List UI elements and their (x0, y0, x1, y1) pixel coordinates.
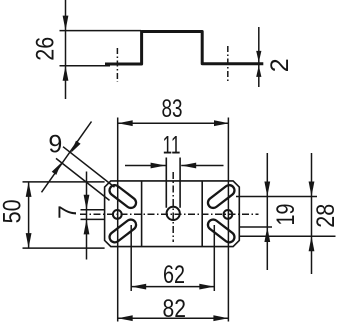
dimension 62 left extension line (130, 225, 132, 291)
svg-text:19: 19 (272, 204, 300, 226)
wire profile outline (105, 32, 238, 65)
dimension 26 dim line (65, 0, 67, 99)
dimension 7 top extension line (81, 209, 105, 211)
dimension 9 upper arrow (71, 141, 81, 153)
dimension 28 bottom extension line (239, 235, 335, 237)
svg-text:28: 28 (312, 204, 338, 228)
hole right (224, 210, 233, 219)
dimension 26 bottom extension line (60, 65, 111, 67)
dimension 26 bottom arrow (63, 66, 69, 81)
dimension 9 dim line (42, 122, 92, 193)
fold line right (201, 181, 203, 247)
dimension 26 top arrow (63, 16, 69, 31)
dimension 7 dim line (86, 172, 88, 260)
dimension 82 dim line (118, 317, 229, 319)
dimension 11 right arrow (181, 163, 196, 169)
dimension 11 left arrow line (125, 165, 166, 167)
centerline right flange hole (profile) (227, 46, 229, 82)
dimension 19 bottom arrow (264, 227, 270, 242)
svg-text:2: 2 (266, 58, 294, 72)
dimension 2 top arrow (256, 51, 261, 63)
dimension 50 bottom arrow (26, 233, 32, 248)
dimension 9 lower arrow (52, 163, 62, 175)
dimension 19 top arrow (264, 182, 270, 197)
dimension 28 bottom arrow (309, 236, 315, 251)
centerline left flange hole (profile) (116, 48, 118, 82)
dimension 83 right arrow (214, 120, 229, 126)
dimension 7 bottom arrow (84, 219, 90, 234)
dimension 28 top arrow (309, 182, 315, 197)
dimension 50 dim line (28, 182, 30, 248)
slot top-left (115, 190, 131, 202)
dimension 62 right arrow (199, 284, 214, 290)
svg-text:9: 9 (48, 131, 62, 159)
svg-text:62: 62 (163, 261, 185, 289)
dimension 19 bottom extension line (239, 226, 272, 228)
svg-text:50: 50 (0, 199, 27, 223)
dimension 62 left arrow (131, 284, 146, 290)
dimension 26 top extension line (60, 30, 142, 32)
dimension 62 dim line (131, 286, 214, 288)
dimension 9 extension line upper (63, 147, 115, 187)
slot bottom-left (115, 225, 131, 237)
dimension 9 extension line lower (56, 158, 110, 200)
dimension 50 top arrow (26, 182, 32, 197)
dimension 11 left arrow (151, 163, 166, 169)
dimension 83 left extension line (117, 118, 119, 322)
dimension 7 top arrow (84, 195, 90, 210)
slot top-right (213, 190, 229, 202)
svg-text:26: 26 (32, 37, 60, 61)
dimension 2 bottom arrow (256, 65, 261, 77)
hole left (113, 210, 122, 219)
svg-text:82: 82 (163, 295, 187, 323)
dimension 62 right extension line (213, 225, 215, 291)
dimension 19 dim line (266, 153, 268, 270)
fold line left (141, 181, 143, 247)
dimension 83 left arrow (118, 120, 133, 126)
central slot edges (166, 158, 180, 208)
dimension 50 bottom extension line (23, 247, 105, 249)
dimension 11 right arrow line (181, 165, 223, 167)
dimension 2 dim line (258, 27, 260, 87)
right side top extension line (19/28) (236, 196, 317, 198)
plan view: plate outline with chamfered corners (105, 181, 240, 247)
wire flange thickness extension to measure point (238, 62, 263, 65)
dimension 50 top extension line (23, 181, 105, 183)
svg-text:11: 11 (163, 132, 181, 160)
horizontal centerline of plate (80, 213, 259, 215)
vertical centerline of central slot (172, 172, 174, 242)
dimension 82 left arrow (118, 315, 133, 321)
dimension 28 dim line (311, 153, 313, 274)
svg-text:7: 7 (54, 205, 82, 219)
dimension 7 bottom extension line (81, 218, 105, 220)
slot bottom-right (213, 225, 229, 237)
dimension 83 right extension line (227, 118, 229, 322)
central slot end circle (167, 207, 180, 220)
dimension 83 dim line (118, 122, 229, 124)
svg-text:83: 83 (162, 95, 183, 123)
dimension 82 right arrow (213, 315, 228, 321)
